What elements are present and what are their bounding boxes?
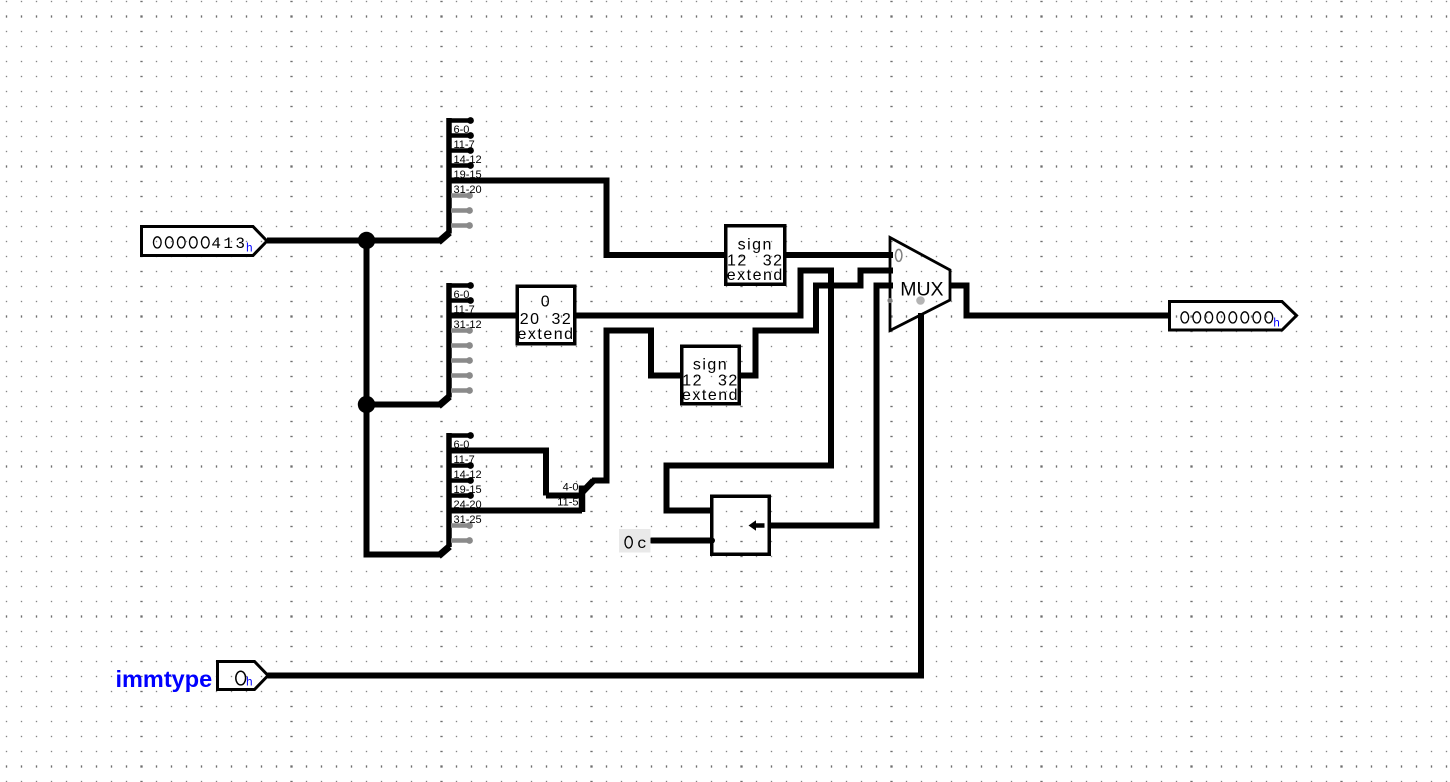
svg-text:h: h [1273,317,1280,330]
combiner splitter SP4 spine [579,486,586,513]
svg-text:11-7: 11-7 [454,304,475,316]
wire U4 shifter output to MUX input 2 [770,286,893,526]
wire SP3 11-7 branch to combiner SP4 branch 4-0 [452,451,547,496]
splitter SP3 branch stub y=480.5 [451,478,471,483]
splitter SP1 unconnected branch stub y=225.5 [451,223,470,228]
MUX select indicator dot [916,296,925,305]
wire U1 output to MUX input 0 [785,252,893,258]
splitter SP1 branch stub y=150.5 [451,148,471,153]
svg-text:extend: extend [727,267,784,284]
splitter SP3 branch stub y=435.5 [451,433,471,438]
output pin 00000000h [1170,302,1297,331]
splitter SP1 spine [446,118,452,234]
MUX unconnected input 3 pin dot [887,298,892,303]
wire SP3 31-25 branch to combiner SP4 branch 11-5 [452,508,583,514]
svg-text:sign: sign [738,237,773,254]
svg-text:11-5: 11-5 [557,497,578,509]
svg-text:31-25: 31-25 [454,514,482,526]
wire main vertical bus x=366 [367,238,443,555]
MUX input 0 label [896,249,902,261]
svg-text:h: h [246,242,253,255]
0-extend U2 [517,286,575,344]
splitter SP2 unconnected branch stub y=330.5 [451,328,470,333]
wire MUX output to output pin [950,286,1170,316]
splitter SP2 branch stub y=285.5 [451,283,471,288]
splitter SP2 branch stub y=300.5 [451,298,471,303]
junction A [358,232,375,249]
splitter SP3 unconnected branch stub y=525.5 [451,523,470,528]
svg-text:31-20: 31-20 [454,184,482,196]
svg-text:19-15: 19-15 [454,484,482,496]
splitter SP2 unconnected branch stub y=375.5 [451,373,470,378]
svg-text:11-7: 11-7 [454,139,475,151]
wire SP2 31-12 branch to 0-extend U2 input [452,313,519,319]
splitter SP2 spine [446,283,452,398]
splitter SP1 branch stub y=135.5 [451,133,471,138]
wire U3 output zigzag to MUX input 1 [740,271,893,376]
svg-text:413: 413 [211,235,247,253]
svg-text:6-0: 6-0 [454,439,470,451]
svg-text:h: h [246,677,253,690]
combiner splitter SP4 output leg [581,481,594,494]
svg-text:6-0: 6-0 [454,124,470,136]
splitter SP3 input leg [439,547,450,557]
wire junction A to splitter SP1 input [367,238,443,244]
sign-extend U3 [682,346,740,404]
multiplexer MUX [890,238,950,331]
splitter SP2 input leg [439,397,450,407]
splitter SP1 branch stub y=120.5 [451,118,471,123]
wire combiner branch 4-0 [546,493,582,499]
svg-text:11-7: 11-7 [454,454,475,466]
splitter SP1 branch stub y=165.5 [451,163,471,168]
svg-text:6-0: 6-0 [454,289,470,301]
svg-text:14-12: 14-12 [454,469,482,481]
splitter SP1 unconnected branch stub y=210.5 [451,208,470,213]
wire SP1 31-20 branch to sign-extend U1 input [452,181,727,256]
svg-text:immtype: immtype [116,666,213,692]
constant 0c [619,529,651,553]
splitter SP1 unconnected branch stub y=195.5 [451,193,470,198]
shifter U4 [712,496,770,554]
sign-extend U1 [726,226,785,285]
wire U2 output zigzag to shifter U4 data input [575,271,831,511]
wire immtype pin to MUX select [268,313,922,676]
svg-text:0: 0 [541,294,551,311]
splitter SP3 branch stub y=465.5 [451,463,471,468]
svg-text:24-20: 24-20 [454,499,482,511]
splitter SP3 spine [446,433,452,547]
wire constant 0c to shifter U4 shift input [652,538,713,544]
input pin 00000413h [142,227,268,256]
svg-text:19-15: 19-15 [454,169,482,181]
splitter SP2 unconnected branch stub y=345.5 [451,343,470,348]
svg-text:sign: sign [693,357,728,374]
svg-text:extend: extend [517,326,574,343]
wire combiner SP4 output to sign-extend U3 input [592,331,682,481]
svg-text:c: c [637,535,647,553]
svg-text:extend: extend [682,387,739,404]
junction B [358,396,375,413]
wire input pin to junction A [267,238,367,244]
splitter SP3 unconnected branch stub y=540.5 [451,538,470,543]
immtype input pin 0h [218,662,269,690]
wire junction B to splitter SP2 input [367,402,443,408]
splitter SP1 input leg [439,233,450,243]
svg-text:31-12: 31-12 [454,319,482,331]
splitter SP2 unconnected branch stub y=360.5 [451,358,470,363]
splitter SP2 unconnected branch stub y=390.5 [451,388,470,393]
svg-text:14-12: 14-12 [454,154,482,166]
splitter SP3 branch stub y=495.5 [451,493,471,498]
shifter U4 left-arrow symbol [749,520,765,530]
svg-text:4-0: 4-0 [563,482,579,494]
